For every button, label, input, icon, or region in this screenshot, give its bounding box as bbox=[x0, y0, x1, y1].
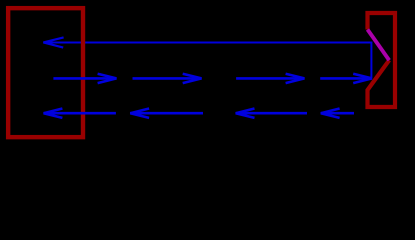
forward beam arrow 4 bbox=[320, 77, 372, 80]
return beam (thin blue line with corner) bbox=[43, 43, 371, 78]
prism reflective face (magenta diagonal) bbox=[368, 30, 390, 61]
return beam arrowhead (left) bbox=[43, 37, 63, 47]
backward beam arrow 4 bbox=[321, 112, 354, 115]
forward beam arrow 3 bbox=[236, 77, 304, 80]
laser rod (left red rectangle) bbox=[8, 8, 83, 137]
backward beam arrow 1 bbox=[44, 112, 116, 115]
forward beam arrow 2 bbox=[133, 77, 202, 80]
backward beam arrow 2 bbox=[130, 112, 203, 115]
forward beam arrow 1 bbox=[44, 74, 372, 118]
rotating prism (right red outline) bbox=[368, 13, 396, 107]
backward beam arrow 3 bbox=[236, 112, 307, 115]
